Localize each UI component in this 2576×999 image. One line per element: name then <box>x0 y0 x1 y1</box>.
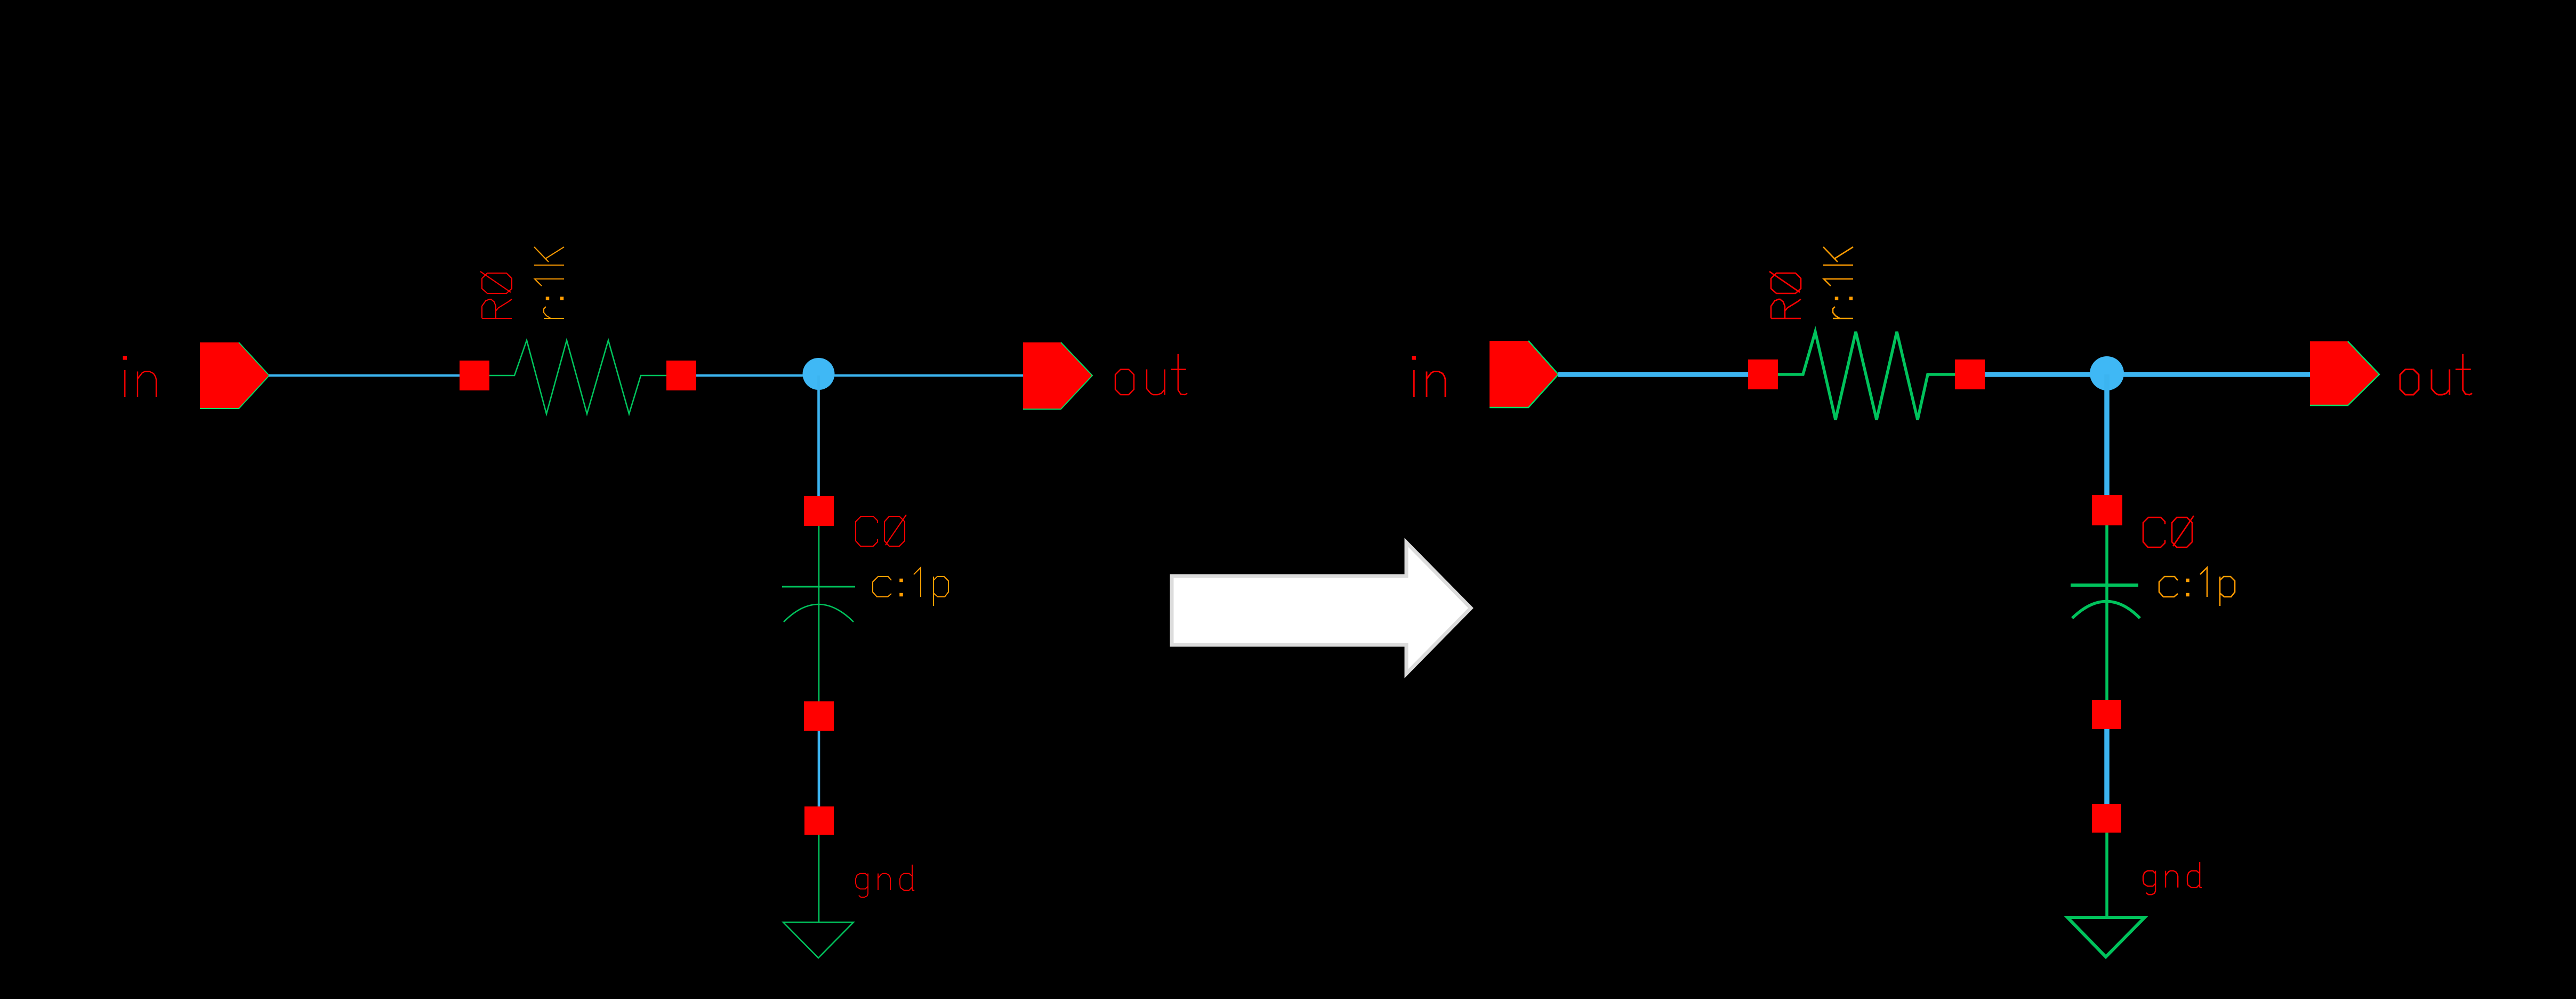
label "out" (right) <box>2400 354 2472 395</box>
label "gnd" <box>856 865 914 897</box>
pin square C0 pin2 (right) <box>2092 700 2121 729</box>
value label "r:1K" (right) <box>1823 247 1853 318</box>
pin square R0 pin1 (right) <box>1748 359 1778 389</box>
pin square R0 pin2 <box>666 361 696 390</box>
wire C0 to gnd (right) <box>2104 729 2110 804</box>
wire R0 to out (right) <box>1985 372 2310 377</box>
pin square C0 pin2 <box>804 701 834 731</box>
label "C0" <box>856 515 906 546</box>
wire R0 to out <box>696 374 1023 377</box>
label "in" <box>125 358 156 397</box>
capacitor C0 (right) <box>2071 525 2140 700</box>
label "gnd" (right) <box>2143 862 2202 894</box>
ground symbol gnd (right) <box>2067 833 2145 957</box>
wire in to R0 (right) <box>1558 372 1748 377</box>
value label "c:1p" <box>873 568 948 606</box>
label "R0" (right) <box>1769 271 1801 318</box>
pin square R0 pin2 (right) <box>1955 359 1985 389</box>
label "C0" (right) <box>2143 516 2194 547</box>
label "out" <box>1115 354 1187 395</box>
label "in" (right) <box>1414 358 1445 397</box>
node junction dot <box>803 358 835 390</box>
pin square gnd (right) <box>2092 804 2121 833</box>
resistor R0 <box>489 340 666 414</box>
wire node to C0 (right) <box>2104 374 2110 495</box>
pin square R0 pin1 <box>460 361 489 390</box>
label "R0" <box>480 271 512 318</box>
wire node to C0 <box>817 375 820 496</box>
pin square C0 pin1 <box>804 496 834 526</box>
node junction dot (right) <box>2090 356 2124 390</box>
pin square C0 pin1 (right) <box>2092 495 2122 525</box>
input pin "in" (right) <box>1490 341 1558 407</box>
output pin "out" <box>1023 342 1092 409</box>
big white arrow <box>1172 542 1471 674</box>
ground symbol gnd <box>783 835 854 958</box>
resistor R0 (right) <box>1778 332 1955 420</box>
input pin "in" <box>200 342 269 409</box>
capacitor C0 <box>782 526 855 701</box>
output pin "out" (right) <box>2310 341 2379 405</box>
value label "c:1p" (right) <box>2159 568 2235 606</box>
wire in to R0 <box>269 374 460 377</box>
value label "r:1K" <box>534 247 564 318</box>
pin square gnd <box>804 806 834 835</box>
wire C0 to gnd <box>818 731 820 806</box>
